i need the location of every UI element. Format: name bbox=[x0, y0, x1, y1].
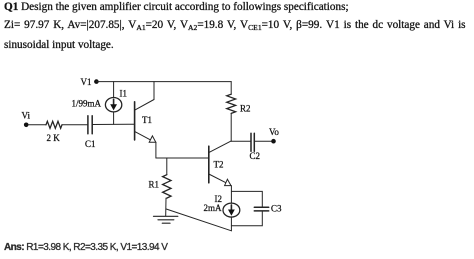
wire R2 to collector node bbox=[230, 113, 232, 141]
svg-text:V1: V1 bbox=[81, 77, 92, 87]
svg-text:Vi: Vi bbox=[22, 111, 31, 121]
wire C2 to Vo bbox=[255, 140, 274, 142]
wire collector node to C2 bbox=[231, 140, 251, 142]
svg-text:C2: C2 bbox=[250, 151, 261, 161]
wire C3 bottom to I2 bottom rail bbox=[231, 211, 262, 226]
current source I1 bbox=[105, 98, 121, 112]
node Vo bbox=[269, 127, 279, 143]
wire C1 to base of T1 bbox=[93, 123, 135, 125]
node Vi bbox=[22, 111, 31, 128]
svg-text:2mA: 2mA bbox=[204, 203, 223, 213]
wire emitter to T2 base bbox=[156, 157, 209, 159]
transistor T2 bbox=[209, 141, 231, 186]
svg-text:I1: I1 bbox=[120, 89, 128, 99]
wire rail to R2 bbox=[230, 82, 232, 95]
wire ground to I2 bottom (diagonal) bbox=[166, 209, 231, 231]
capacitor C1 bbox=[88, 116, 92, 134]
wire I1 to base node bbox=[113, 112, 115, 124]
wire Vi to resistor bbox=[29, 124, 47, 126]
resistor 2K bbox=[46, 121, 62, 128]
wire V1 supply rail bbox=[96, 81, 231, 83]
wire T2 emitter down to I2 bbox=[230, 186, 232, 204]
svg-text:T1: T1 bbox=[142, 115, 152, 125]
wire T1 collector to rail bbox=[153, 82, 155, 100]
svg-text:R1: R1 bbox=[149, 180, 160, 190]
wire rail to I1 bbox=[113, 82, 115, 98]
svg-text:C3: C3 bbox=[271, 204, 282, 214]
wire resistor to C1 bbox=[62, 124, 88, 126]
svg-text:C1: C1 bbox=[85, 139, 96, 149]
svg-text:R2: R2 bbox=[240, 104, 251, 114]
resistor R2 bbox=[227, 94, 236, 113]
transistor T1 bbox=[135, 100, 156, 143]
svg-text:1/99mA: 1/99mA bbox=[72, 99, 102, 109]
svg-text:Vo: Vo bbox=[269, 127, 279, 137]
current source I2 bbox=[223, 203, 240, 217]
ground bbox=[154, 216, 178, 223]
wire node to R1 bbox=[166, 158, 168, 175]
capacitor C2 bbox=[251, 133, 254, 151]
svg-text:T2: T2 bbox=[214, 160, 224, 170]
wire T1 emitter down bbox=[155, 142, 157, 158]
wire R1 to ground bbox=[165, 198, 167, 216]
svg-text:2 K: 2 K bbox=[47, 133, 61, 143]
node V1 bbox=[81, 77, 99, 87]
wire emitter node to C3 top bbox=[231, 191, 262, 207]
capacitor C3 bbox=[254, 207, 268, 211]
wire I2 bottom bbox=[230, 217, 232, 231]
resistor R1 bbox=[163, 175, 171, 198]
